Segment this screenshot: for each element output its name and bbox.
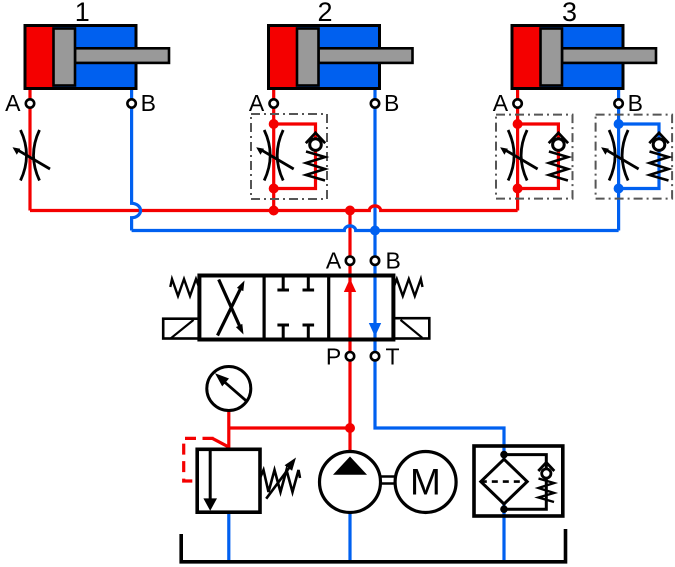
valve centre position blocked ports [277, 278, 314, 291]
node: junction dot valve-A on red bus [345, 206, 355, 216]
filter F1 enclosure [474, 446, 563, 516]
dashed enclosure cyl3 port-A flow control [496, 115, 573, 199]
relief valve spring [260, 470, 300, 492]
wire: cylinder 3 port A down to red bus [516, 89, 519, 211]
valve right spring [393, 279, 422, 296]
node: junction dot valve-B on blue bus [370, 226, 380, 236]
filter element diamond [481, 459, 527, 504]
check valve CV2 in cyl2 box [306, 133, 325, 143]
svg-text:A: A [326, 248, 342, 274]
wire: gauge stem and manifold to pump junction [229, 410, 350, 449]
node: top dot cyl3-B box [614, 119, 624, 129]
cylinder 3 rod [562, 48, 656, 63]
wire: red bus A-line y=210.5 with hop over blue at x=375 [30, 206, 518, 211]
valve left solenoid [163, 319, 199, 339]
svg-text:A: A [5, 90, 21, 116]
wire: cylinder 3 port B down to blue bus [617, 89, 620, 231]
wire: cylinder 2 port A down to red bus [272, 89, 275, 211]
wire: cylinder 1 port B down with hop over red bus, to blue bus [132, 89, 141, 231]
throttle valve FC3 in cyl3 A box [506, 130, 537, 181]
wire: blue branch loop in cyl3 port-B flow-control box [619, 124, 659, 189]
cylinder 1 rod [75, 48, 169, 63]
port circle cyl1 A [26, 99, 34, 107]
cylinder 2 rod [319, 48, 413, 63]
wire: red branch loop in cyl2 flow-control box [274, 124, 316, 189]
svg-text:A: A [249, 90, 265, 116]
directional valve V1 body [199, 276, 393, 340]
node: bottom dot cyl2 box [269, 184, 279, 194]
dashed enclosure cyl2 flow control [251, 114, 327, 199]
node: junction dot cyl2-A on red bus [269, 206, 279, 216]
pressure gauge G1 [207, 367, 251, 411]
svg-text:P: P [326, 344, 341, 370]
port circle valve A [346, 257, 354, 265]
wire: cylinder 1 port A down through throttle to red bus [28, 89, 31, 211]
valve left spring [170, 279, 199, 296]
svg-text:B: B [386, 248, 401, 274]
port circle valve T [371, 352, 379, 360]
wire: valve port A up to red bus, and P-line down to pump [348, 211, 351, 452]
svg-text:A: A [493, 90, 509, 116]
filter branch to bypass check valve [504, 455, 546, 510]
relief valve RV1 pilot dashed line [213, 438, 229, 446]
svg-text:B: B [141, 90, 156, 116]
svg-text:T: T [386, 344, 400, 370]
port circle cyl2 A [270, 99, 278, 107]
svg-text:2: 2 [317, 0, 332, 27]
check valve CV4 in cyl3 B box [649, 133, 668, 143]
cylinder 1 piston [54, 29, 76, 86]
port circle cyl2 B [371, 99, 379, 107]
wire: relief valve tank drain [227, 512, 230, 562]
relief valve RV1 body [197, 449, 260, 512]
wire: pump outlet to tank [348, 513, 351, 562]
node: top dot cyl3-A box [513, 119, 523, 129]
valve right position blue arrow B to T [369, 323, 381, 337]
port circle cyl1 B [127, 99, 135, 107]
throttle valve FC2 in cyl2 box [262, 130, 293, 181]
wire: red branch loop in cyl3 port-A flow-control box [518, 124, 559, 189]
wire: cylinder 2 port B down to valve port B, T and filter, tank [375, 89, 504, 562]
filter bypass check valve CV5 [538, 462, 554, 471]
valve right solenoid [393, 318, 429, 338]
svg-text:3: 3 [562, 0, 577, 27]
cylinder 2 body [269, 26, 380, 89]
motor M1 [395, 452, 456, 513]
valve left position crossed arrows [218, 288, 242, 336]
node: junction dot pump inlet manifold [345, 423, 355, 433]
throttle valve FC1 on cyl1 A-line [19, 130, 50, 181]
cylinder 3 piston [541, 29, 563, 86]
cylinder 2 piston [297, 29, 319, 86]
node: top dot cyl2 box [269, 119, 279, 129]
valve right position red arrow P to A [344, 279, 356, 293]
node: bottom dot cyl3-A box [513, 184, 523, 194]
cylinder 1 body [25, 26, 136, 89]
wire: blue bus y=230.5 with hop over red at x=350 [132, 226, 619, 231]
relief valve adjust arrow [266, 468, 289, 499]
node: filter top junction [500, 451, 508, 459]
svg-text:1: 1 [75, 0, 90, 27]
svg-text:M: M [410, 462, 441, 503]
pump P1 [320, 452, 381, 513]
cylinder 3 body [512, 26, 623, 89]
dashed enclosure cyl3 port-B flow control [596, 115, 673, 199]
throttle valve FC4 in cyl3 B box [607, 130, 638, 181]
node: bottom dot cyl3-B box [614, 184, 624, 194]
node: filter bottom junction [500, 505, 508, 513]
tank T1 [181, 529, 565, 562]
port circle cyl3 A [513, 99, 521, 107]
port circle cyl3 B [614, 99, 622, 107]
svg-text:B: B [628, 90, 643, 116]
port circle valve B [371, 257, 379, 265]
port circle valve P [346, 352, 354, 360]
coupling pump-motor [381, 477, 396, 484]
check valve CV3 in cyl3 A box [549, 133, 568, 143]
svg-text:B: B [384, 90, 399, 116]
